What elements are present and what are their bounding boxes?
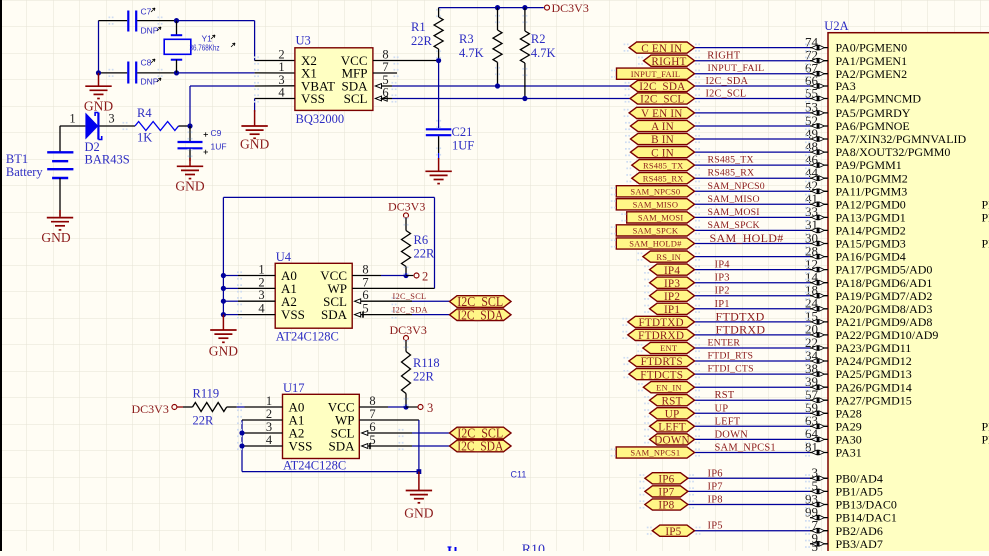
wire net RS485_TX xyxy=(695,164,811,166)
svg-text:DOWN: DOWN xyxy=(654,435,690,447)
svg-text:DNP: DNP xyxy=(141,77,159,87)
port DOWN xyxy=(650,434,695,445)
svg-text:PA11/PGMM3: PA11/PGMM3 xyxy=(836,184,908,198)
svg-text:IP3: IP3 xyxy=(664,278,680,290)
port INPUT_FAIL xyxy=(617,68,695,79)
pin SCL wire xyxy=(375,96,381,101)
wire left bus U4 xyxy=(222,197,224,314)
svg-text:SAM_MOSI: SAM_MOSI xyxy=(708,207,760,218)
svg-text:INPUT_FAIL: INPUT_FAIL xyxy=(708,63,765,74)
svg-text:I2C_SDA: I2C_SDA xyxy=(393,305,428,314)
svg-text:SAM_MISO: SAM_MISO xyxy=(708,194,760,205)
svg-text:FTDTXD: FTDTXD xyxy=(716,309,765,323)
port RST xyxy=(650,395,695,406)
svg-text:8: 8 xyxy=(362,263,368,277)
IC U3 xyxy=(295,48,373,111)
svg-text:4.7K: 4.7K xyxy=(459,46,484,60)
port IP6 xyxy=(645,473,688,484)
svg-text:I2C_SDA: I2C_SDA xyxy=(457,307,503,322)
svg-text:PB: PB xyxy=(982,419,989,433)
wire net FTDRXD xyxy=(695,334,811,336)
port ENT xyxy=(643,342,695,353)
svg-text:SAM_MISO: SAM_MISO xyxy=(633,200,679,210)
port IP1 xyxy=(650,303,695,314)
ground xyxy=(98,73,100,86)
svg-text:IP4: IP4 xyxy=(664,265,680,277)
diode D2 xyxy=(85,113,98,140)
svg-text:PA12/PGMD0: PA12/PGMD0 xyxy=(836,197,906,211)
svg-text:SAM_HOLD#: SAM_HOLD# xyxy=(710,231,784,245)
svg-text:BAR43S: BAR43S xyxy=(85,153,130,167)
svg-text:DC3V3: DC3V3 xyxy=(552,1,589,15)
wire net IP6 xyxy=(688,477,810,479)
port FTDRXD xyxy=(628,329,695,340)
svg-text:1: 1 xyxy=(266,394,272,408)
svg-text:I2C_SCL: I2C_SCL xyxy=(393,292,427,301)
svg-text:Battery: Battery xyxy=(6,165,44,179)
wire net UP xyxy=(695,412,811,414)
svg-text:C9: C9 xyxy=(211,128,222,138)
svg-text:PA17/PGMD5/AD0: PA17/PGMD5/AD0 xyxy=(836,263,933,277)
wire net FTDRTS xyxy=(695,360,811,362)
svg-text:4: 4 xyxy=(266,433,273,447)
svg-text:R119: R119 xyxy=(193,387,220,401)
port I2C SDA xyxy=(450,309,512,321)
svg-text:PB: PB xyxy=(982,433,989,447)
wire bottom gnd U17 xyxy=(242,471,419,473)
svg-text:PB2/AD6: PB2/AD6 xyxy=(836,524,883,538)
svg-text:DC3V3: DC3V3 xyxy=(132,402,169,416)
crystal Y1 xyxy=(176,21,178,36)
svg-text:3: 3 xyxy=(258,288,264,302)
svg-text:ENTER: ENTER xyxy=(708,338,741,349)
svg-text:PA10/PGMM2: PA10/PGMM2 xyxy=(836,171,908,185)
svg-text:22R: 22R xyxy=(413,370,435,384)
port UP xyxy=(650,408,695,419)
svg-text:6: 6 xyxy=(362,288,368,302)
svg-text:1K: 1K xyxy=(137,131,152,145)
svg-text:FTDTXD: FTDTXD xyxy=(638,317,683,329)
wire xyxy=(60,125,85,127)
junction xyxy=(174,70,179,75)
power DC3V3 xyxy=(545,5,550,10)
svg-text:SDA: SDA xyxy=(328,439,355,454)
svg-text:IP5: IP5 xyxy=(665,526,681,538)
svg-text:PA25/PGMD13: PA25/PGMD13 xyxy=(836,367,912,381)
resistor R3 xyxy=(495,5,500,10)
svg-text:PA0/PGMEN0: PA0/PGMEN0 xyxy=(836,41,908,55)
svg-text:PA30: PA30 xyxy=(836,433,862,447)
svg-text:I2C_SDA: I2C_SDA xyxy=(706,76,749,87)
svg-text:3: 3 xyxy=(108,112,114,126)
port RIGHT xyxy=(644,55,695,66)
pin SDA wire xyxy=(375,84,381,89)
pin SDA wire U4 xyxy=(355,312,361,317)
port IP3 xyxy=(650,277,695,288)
svg-text:FTDRXD: FTDRXD xyxy=(638,330,684,342)
svg-text:1: 1 xyxy=(69,112,75,126)
svg-text:I2C_SCL: I2C_SCL xyxy=(640,94,684,106)
svg-text:PA29: PA29 xyxy=(836,419,862,433)
port SAM_NPCS1 xyxy=(616,447,694,458)
port SAM_HOLD# xyxy=(616,238,694,249)
port LEFT xyxy=(650,421,695,432)
svg-text:5: 5 xyxy=(812,539,819,551)
capacitor C8 xyxy=(99,72,128,74)
wire net B IN xyxy=(695,138,811,140)
svg-text:LEFT: LEFT xyxy=(658,422,686,434)
svg-text:C8: C8 xyxy=(141,58,152,68)
svg-text:PB: PB xyxy=(982,211,989,225)
svg-text:RST: RST xyxy=(715,390,735,401)
svg-text:SAM_NPCS1: SAM_NPCS1 xyxy=(715,443,776,454)
wire xyxy=(177,72,255,74)
svg-text:IP5: IP5 xyxy=(708,521,723,532)
svg-text:22R: 22R xyxy=(411,34,433,48)
pin SDA wire U17 xyxy=(362,444,368,449)
svg-text:PA14/PGMD2: PA14/PGMD2 xyxy=(836,224,906,238)
svg-text:6: 6 xyxy=(369,420,375,434)
wire net INPUT_FAIL xyxy=(695,73,811,75)
wire net IP4 xyxy=(695,269,811,271)
svg-text:R1: R1 xyxy=(411,20,426,34)
svg-text:PB13/DAC0: PB13/DAC0 xyxy=(836,498,897,512)
svg-text:SAM_NPCS1: SAM_NPCS1 xyxy=(630,448,680,458)
svg-text:PA8/XOUT32/PGMM0: PA8/XOUT32/PGMM0 xyxy=(836,145,951,159)
svg-text:AT24C128C: AT24C128C xyxy=(283,459,346,473)
svg-text:ENT: ENT xyxy=(660,343,678,353)
wire net IP8 xyxy=(688,504,810,506)
svg-text:1UF: 1UF xyxy=(452,139,474,153)
port IP2 xyxy=(650,290,695,301)
svg-text:C11: C11 xyxy=(511,470,527,480)
svg-text:I2C_SCL: I2C_SCL xyxy=(706,89,747,100)
resistor R4 xyxy=(135,122,179,131)
IC U4 xyxy=(275,263,352,328)
svg-text:PA27/PGMD15: PA27/PGMD15 xyxy=(836,393,912,407)
svg-text:PA4/PGMNCMD: PA4/PGMNCMD xyxy=(836,92,922,106)
svg-text:8: 8 xyxy=(369,394,375,408)
svg-text:AT24C128C: AT24C128C xyxy=(276,330,339,344)
svg-text:PB14/DAC1: PB14/DAC1 xyxy=(836,511,897,525)
svg-text:SAM_MOSI: SAM_MOSI xyxy=(638,213,684,223)
wire net SAM_MISO xyxy=(695,203,811,205)
svg-text:RIGHT: RIGHT xyxy=(651,56,686,68)
wire net IP1 xyxy=(695,308,811,310)
wire net SAM_MOSI xyxy=(695,216,811,218)
svg-text:FTDI_RTS: FTDI_RTS xyxy=(708,351,754,362)
wire net FTDCTS xyxy=(695,373,811,375)
port B IN xyxy=(631,133,695,144)
svg-text:R2: R2 xyxy=(531,32,546,46)
sheet border xyxy=(0,0,2,551)
svg-text:IP1: IP1 xyxy=(715,299,730,310)
svg-text:GND: GND xyxy=(209,344,238,359)
svg-text:PB1/AD5: PB1/AD5 xyxy=(836,485,883,499)
wire net RST xyxy=(695,399,811,401)
wire net SAM_SPCK xyxy=(695,229,811,231)
power DC3V3 xyxy=(404,213,409,218)
svg-text:PA13/PGMD1: PA13/PGMD1 xyxy=(836,211,906,225)
svg-text:PA21/PGMD9/AD8: PA21/PGMD9/AD8 xyxy=(836,315,933,329)
svg-text:R10: R10 xyxy=(522,543,545,552)
pin VCC wire U17 xyxy=(359,406,388,408)
wire xyxy=(100,125,136,127)
svg-text:DOWN: DOWN xyxy=(715,429,749,440)
svg-text:GND: GND xyxy=(404,506,433,521)
svg-text:PA7/XIN32/PGMNVALID: PA7/XIN32/PGMNVALID xyxy=(836,132,967,146)
wire VBAT xyxy=(189,86,191,126)
port IP7 xyxy=(645,486,688,497)
svg-text:SAM_NPCS0: SAM_NPCS0 xyxy=(708,181,765,192)
svg-text:PB: PB xyxy=(982,197,989,211)
svg-text:4: 4 xyxy=(258,302,265,316)
svg-text:PA26/PGMD14: PA26/PGMD14 xyxy=(836,380,912,394)
wire net IP3 xyxy=(695,282,811,284)
IC U17 xyxy=(283,394,360,458)
svg-text:RS485_TX: RS485_TX xyxy=(643,160,683,170)
svg-text:C EN IN: C EN IN xyxy=(641,43,682,55)
svg-text:IP7: IP7 xyxy=(708,481,723,492)
port RS485_RX xyxy=(632,173,695,184)
port FTDRTS xyxy=(629,355,695,366)
svg-text:GND: GND xyxy=(41,230,70,245)
svg-text:DC3V3: DC3V3 xyxy=(388,200,425,214)
wire net RS485_RX xyxy=(695,177,811,179)
capacitor C9 xyxy=(189,126,191,141)
port I2C SDA xyxy=(450,440,512,452)
wire net IP5 xyxy=(695,530,811,532)
resistor R6 xyxy=(405,218,407,231)
wire left bus U17 xyxy=(241,420,243,472)
svg-text:SAM_HOLD#: SAM_HOLD# xyxy=(629,239,682,249)
svg-text:3: 3 xyxy=(266,420,272,434)
svg-text:PB: PB xyxy=(982,237,989,251)
pin VCC wire U4 xyxy=(352,275,381,277)
resistor R2 xyxy=(522,5,527,10)
svg-text:IP8: IP8 xyxy=(708,495,723,506)
svg-text:PA16/PGMD4: PA16/PGMD4 xyxy=(836,250,906,264)
port SAM_SPCK xyxy=(616,225,694,236)
ground xyxy=(59,210,61,218)
port SAM_NPCS0 xyxy=(616,186,694,197)
port I2C SCL xyxy=(450,296,512,308)
svg-text:C21: C21 xyxy=(452,125,473,139)
port FTDCTS xyxy=(629,369,695,380)
wire net RIGHT xyxy=(695,60,811,62)
svg-text:RIGHT: RIGHT xyxy=(707,51,740,62)
pin VCC wire xyxy=(373,60,439,62)
svg-text:1: 1 xyxy=(258,263,264,277)
svg-text:VSS: VSS xyxy=(289,439,313,454)
svg-text:PA15/PGMD3: PA15/PGMD3 xyxy=(836,237,906,251)
svg-text:SCL: SCL xyxy=(344,91,368,106)
svg-text:PA5/PGMRDY: PA5/PGMRDY xyxy=(836,106,911,120)
port SAM_MISO xyxy=(616,199,694,210)
svg-text:R3: R3 xyxy=(459,32,474,46)
svg-text:UP: UP xyxy=(715,403,729,414)
wire xyxy=(177,20,255,22)
resistor R119 xyxy=(177,406,183,408)
resistor R118 xyxy=(405,341,407,352)
svg-text:VSS: VSS xyxy=(301,91,325,106)
ground xyxy=(418,472,420,491)
wire net V EN IN xyxy=(695,112,811,114)
svg-text:I2C_SDA: I2C_SDA xyxy=(457,439,503,454)
svg-text:IP1: IP1 xyxy=(664,304,680,316)
port I2C_SCL xyxy=(630,93,694,104)
svg-text:22R: 22R xyxy=(414,247,436,261)
svg-text:RS_IN: RS_IN xyxy=(656,252,681,262)
pin SCL wire U17 xyxy=(362,431,368,436)
wire net RS_IN xyxy=(695,256,811,258)
svg-text:SAM_NPCS0: SAM_NPCS0 xyxy=(630,187,680,197)
junction xyxy=(436,58,441,63)
wire net DOWN xyxy=(695,438,811,440)
svg-text:A IN: A IN xyxy=(651,121,674,133)
wire WP U17 xyxy=(359,419,419,421)
wire net C EN IN xyxy=(695,47,811,49)
svg-text:C7: C7 xyxy=(141,7,152,17)
svg-text:PA9/PGMM1: PA9/PGMM1 xyxy=(836,158,902,172)
svg-text:PA6/PGMNOE: PA6/PGMNOE xyxy=(836,119,910,133)
port C EN IN xyxy=(629,42,694,53)
wire WP loop xyxy=(223,196,434,198)
svg-text:PA31: PA31 xyxy=(836,446,862,460)
svg-text:PA24/PGMD12: PA24/PGMD12 xyxy=(836,354,912,368)
svg-text:PA22/PGMD10/AD9: PA22/PGMD10/AD9 xyxy=(836,328,939,342)
svg-text:IP7: IP7 xyxy=(658,487,674,499)
wire net LEFT xyxy=(695,425,811,427)
svg-text:VSS: VSS xyxy=(281,307,305,322)
svg-text:PA1/PGMEN1: PA1/PGMEN1 xyxy=(836,54,908,68)
svg-text:22R: 22R xyxy=(193,414,215,428)
svg-text:IP6: IP6 xyxy=(708,468,723,479)
svg-text:GND: GND xyxy=(175,179,204,194)
svg-text:V EN IN: V EN IN xyxy=(641,108,683,120)
svg-text:3: 3 xyxy=(427,401,433,415)
svg-text:SAM_SPCK: SAM_SPCK xyxy=(708,220,760,231)
svg-text:FTDI_CTS: FTDI_CTS xyxy=(708,364,754,375)
svg-text:PA19/PGMD7/AD2: PA19/PGMD7/AD2 xyxy=(836,289,933,303)
svg-text:IP2: IP2 xyxy=(715,286,730,297)
port IP4 xyxy=(650,264,695,275)
port FTDTXD xyxy=(628,316,695,327)
svg-text:IP3: IP3 xyxy=(715,273,730,284)
net label 3 xyxy=(406,406,418,408)
svg-text:PA20/PGMD8/AD3: PA20/PGMD8/AD3 xyxy=(836,302,933,316)
ground xyxy=(438,158,440,171)
wire net SAM_NPCS0 xyxy=(695,190,811,192)
svg-text:B IN: B IN xyxy=(651,134,674,146)
wire net I2C_SCL xyxy=(695,98,811,100)
capacitor C21 xyxy=(438,61,440,129)
svg-text:EN_IN: EN_IN xyxy=(656,382,682,392)
svg-text:2: 2 xyxy=(422,269,428,283)
net label 2 xyxy=(406,275,413,277)
svg-text:DC3V3: DC3V3 xyxy=(390,323,427,337)
svg-text:2: 2 xyxy=(266,407,272,421)
svg-text:R4: R4 xyxy=(137,106,152,120)
svg-text:R118: R118 xyxy=(413,356,440,370)
svg-text:R6: R6 xyxy=(414,233,429,247)
svg-text:PB0/AD4: PB0/AD4 xyxy=(836,471,883,485)
svg-text:36.768Khz: 36.768Khz xyxy=(190,44,220,53)
svg-text:RS485_RX: RS485_RX xyxy=(708,168,755,179)
port C IN xyxy=(631,147,695,158)
svg-text:PB3/AD7: PB3/AD7 xyxy=(836,537,883,551)
svg-text:I2C_SDA: I2C_SDA xyxy=(639,81,685,93)
svg-text:7: 7 xyxy=(382,60,388,74)
svg-text:7: 7 xyxy=(369,407,375,421)
grid snap marks xyxy=(109,17,111,19)
port IP5 xyxy=(652,525,694,536)
svg-text:PA23/PGMD11: PA23/PGMD11 xyxy=(836,341,912,355)
wire xyxy=(98,21,100,73)
svg-text:U2A: U2A xyxy=(824,19,848,33)
svg-text:UP: UP xyxy=(665,409,680,421)
port I2C_SDA xyxy=(630,80,694,91)
wire DC3V3 top xyxy=(439,7,544,9)
port V EN IN xyxy=(629,107,694,118)
svg-text:RS485_RX: RS485_RX xyxy=(643,173,684,183)
svg-text:IP6: IP6 xyxy=(658,474,674,486)
svg-text:LEFT: LEFT xyxy=(715,416,741,427)
svg-text:PA18/PGMD6/AD1: PA18/PGMD6/AD1 xyxy=(836,276,933,290)
svg-text:IP2: IP2 xyxy=(664,291,680,303)
wire net SAM_HOLD# xyxy=(695,243,811,245)
wire net I2C_SDA xyxy=(695,85,811,87)
IC U2A xyxy=(828,33,989,553)
junction xyxy=(174,18,179,23)
junction xyxy=(187,123,192,128)
svg-text:U4: U4 xyxy=(276,250,292,264)
svg-text:FTDRXD: FTDRXD xyxy=(716,322,766,336)
svg-text:SAM_SPCK: SAM_SPCK xyxy=(633,226,679,236)
svg-text:U17: U17 xyxy=(283,381,305,395)
wire net IP2 xyxy=(695,295,811,297)
port EN_IN xyxy=(643,382,694,393)
port I2C SCL xyxy=(450,427,512,439)
wire net A IN xyxy=(695,125,811,127)
resistor R1 xyxy=(438,8,440,17)
svg-text:U3: U3 xyxy=(296,34,311,48)
pin SCL wire U4 xyxy=(355,299,361,304)
svg-text:PA28: PA28 xyxy=(836,406,862,420)
ground xyxy=(189,158,191,166)
battery BT1 xyxy=(59,126,61,153)
svg-text:Y1: Y1 xyxy=(202,34,213,44)
svg-text:FTDCTS: FTDCTS xyxy=(640,369,683,381)
port IP8 xyxy=(645,499,688,510)
svg-text:GND: GND xyxy=(240,137,269,152)
svg-text:1UF: 1UF xyxy=(211,142,227,152)
svg-text:DNP: DNP xyxy=(141,26,159,36)
wire net C IN xyxy=(695,151,811,153)
port SAM_MOSI xyxy=(627,212,695,223)
ground xyxy=(254,110,256,126)
wire net FTDTXD xyxy=(695,321,811,323)
capacitor C7 xyxy=(99,20,128,22)
svg-text:INPUT_FAIL: INPUT_FAIL xyxy=(631,69,681,79)
svg-text:BQ32000: BQ32000 xyxy=(296,112,345,126)
svg-text:RST: RST xyxy=(661,395,682,407)
wire VSS to gnd xyxy=(255,98,295,100)
port RS485_TX xyxy=(632,160,695,171)
partial component xyxy=(449,547,451,551)
wire net ENT xyxy=(695,347,811,349)
svg-text:SDA: SDA xyxy=(321,307,348,322)
